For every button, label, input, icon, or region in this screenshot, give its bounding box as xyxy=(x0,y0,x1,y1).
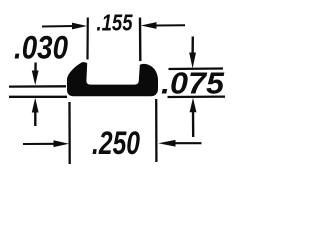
dimension .075: upper arrow stem xyxy=(191,37,194,57)
dimension .155: right arrowhead (points left) xyxy=(141,22,157,29)
dimension .155: right extension line xyxy=(139,18,142,62)
dimension .250: right dimension line xyxy=(173,142,202,144)
dimension .075: lower arrowhead (points up) xyxy=(190,98,197,113)
dimension .155: left dimension line xyxy=(42,25,74,28)
dimension .250: left arrowhead (points right) xyxy=(54,140,70,147)
dimension .030: lower extension line xyxy=(9,96,67,98)
dimension .155: left extension line xyxy=(86,18,89,60)
dimension .075: lower arrow stem xyxy=(192,108,195,137)
dimension .250: right extension line xyxy=(155,99,157,162)
dimension .075: lower extension line xyxy=(168,95,226,98)
svg-text:.155: .155 xyxy=(97,10,134,36)
dimension .030: upper arrowhead (points down) xyxy=(32,71,39,86)
dimension .075: upper extension line xyxy=(169,67,224,70)
dimension .155: right dimension line xyxy=(155,24,185,26)
svg-text:.030: .030 xyxy=(14,30,68,66)
dimension .030: lower arrow stem xyxy=(34,108,36,126)
dimension .250: left extension line xyxy=(68,102,70,164)
dimension .250: left dimension line xyxy=(23,143,56,145)
channel cross-section (U-channel profile, filled black) xyxy=(67,62,158,96)
dimension .030: upper extension line xyxy=(9,85,66,88)
svg-text:.250: .250 xyxy=(92,125,140,161)
dimension .030: upper arrow stem xyxy=(34,63,37,77)
dimension .155: left arrowhead (points right) xyxy=(72,23,87,30)
svg-text:.075: .075 xyxy=(161,67,225,101)
dimension .075: upper arrowhead (points down) xyxy=(189,53,196,69)
dimension .250: right arrowhead (points left) xyxy=(158,140,175,147)
dimension .030: lower arrowhead (points up) xyxy=(32,98,39,113)
